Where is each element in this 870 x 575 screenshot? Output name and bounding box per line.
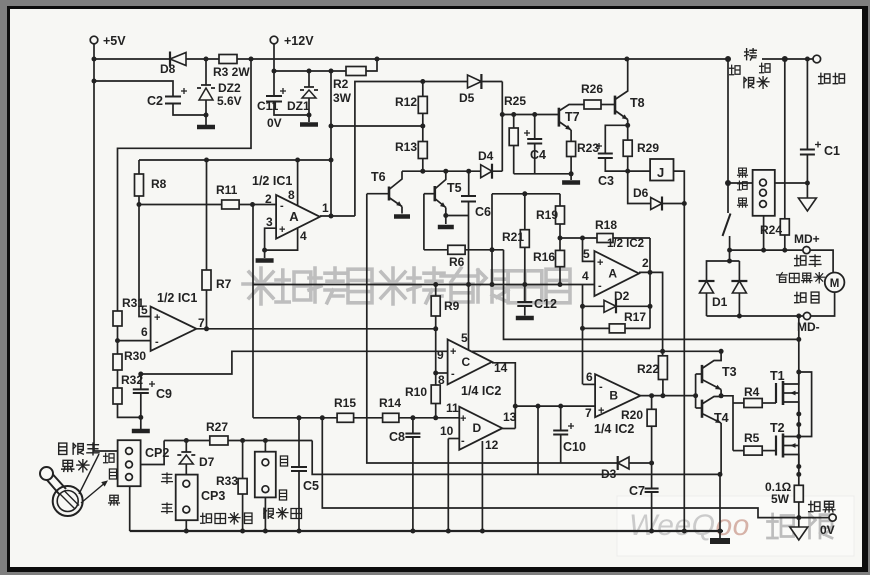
wire IC2A output xyxy=(639,272,663,355)
svg-text:6: 6 xyxy=(141,325,148,339)
svg-text:R6: R6 xyxy=(449,255,465,269)
label yellow upper xyxy=(162,473,173,483)
svg-text:-: - xyxy=(598,280,602,292)
wire R9 node down to pin8 xyxy=(435,329,437,385)
svg-text:+: + xyxy=(279,224,285,236)
wire connector bottom pin xyxy=(763,216,765,250)
svg-text:-: - xyxy=(461,435,465,447)
label black2 xyxy=(738,198,748,207)
resistor R27 xyxy=(210,436,228,445)
terminal +5V xyxy=(90,36,98,44)
capacitor C3 branch xyxy=(605,125,627,153)
node R7 bottom xyxy=(204,326,209,331)
capacitor C2 xyxy=(165,97,181,104)
svg-text:R33: R33 xyxy=(216,474,238,488)
wire ramp link down xyxy=(537,406,539,474)
node 0V line tap xyxy=(320,415,325,420)
resistor R29 xyxy=(627,125,629,140)
node 0V junction xyxy=(796,515,801,520)
svg-text:1/4 IC2: 1/4 IC2 xyxy=(461,384,501,398)
svg-text:A: A xyxy=(289,209,299,224)
node connector pin3 xyxy=(761,248,766,253)
node R9 junction xyxy=(433,326,438,331)
label blue lower xyxy=(279,490,286,500)
capacitor C11 xyxy=(273,71,275,96)
wire motor bottom xyxy=(811,292,835,316)
wire R31 bottom xyxy=(117,326,119,341)
resistor R19 xyxy=(559,194,561,206)
wire R17 line xyxy=(583,327,651,329)
wire R18 line xyxy=(560,237,650,239)
resistor R4 xyxy=(733,402,744,404)
node D6 right xyxy=(682,201,687,206)
svg-text:-: - xyxy=(451,368,455,380)
resistor R sense 0.1ohm xyxy=(794,485,803,502)
node C1 rail xyxy=(805,57,810,62)
label speed limiter xyxy=(264,508,273,518)
node source line xyxy=(796,472,801,477)
op-amp IC2 D xyxy=(459,407,502,450)
node pin6 xyxy=(115,338,120,343)
wire B output line xyxy=(640,395,695,397)
node D2 left xyxy=(580,304,585,309)
label brake cutoff xyxy=(201,513,212,523)
svg-text:C4: C4 xyxy=(530,148,546,162)
wire R32 to ground xyxy=(118,404,141,417)
wire MD+ line xyxy=(730,249,803,251)
wire emitter ground line xyxy=(514,173,571,175)
resistor R26 xyxy=(584,100,601,109)
node R20 top xyxy=(649,393,654,398)
wire T6 base long down xyxy=(367,194,652,463)
bottom-right watermark WeeQoo weiku xyxy=(617,496,854,556)
node R2 rail xyxy=(375,57,380,62)
svg-text:-: - xyxy=(155,336,159,348)
wire MD- down link xyxy=(798,316,800,372)
node D8 cathode rail xyxy=(204,57,209,62)
node R22 sawtooth line xyxy=(660,349,665,354)
wire R12 R13 feed line xyxy=(331,125,423,127)
mosfet T2 xyxy=(775,436,777,456)
svg-text:8: 8 xyxy=(438,373,445,387)
svg-text:4: 4 xyxy=(582,269,589,283)
svg-text:-: - xyxy=(280,200,284,212)
transistor T6 xyxy=(367,193,389,195)
wire B plus line xyxy=(515,405,595,407)
svg-text:2: 2 xyxy=(642,256,649,270)
zener DZ2 xyxy=(205,59,207,85)
svg-text:0V: 0V xyxy=(267,116,282,130)
connector speed limiter xyxy=(264,441,266,452)
wire R8 bottom xyxy=(138,196,140,205)
wire pin10 ground xyxy=(447,439,449,532)
svg-text:R5: R5 xyxy=(744,431,760,445)
svg-text:C12: C12 xyxy=(534,297,557,311)
resistor R24 xyxy=(784,59,786,219)
wire T5 base down xyxy=(423,194,425,250)
svg-text:+: + xyxy=(450,346,456,358)
capacitor C1 xyxy=(806,59,808,150)
wire IC1A output xyxy=(320,215,355,217)
op-amp IC2 B xyxy=(595,374,640,417)
wire feedback vertical xyxy=(649,238,651,328)
svg-text:4: 4 xyxy=(300,229,307,243)
diode D6 xyxy=(651,198,662,210)
wire pin8 IC1A xyxy=(297,160,299,206)
svg-text:1/4 IC2: 1/4 IC2 xyxy=(594,422,634,436)
svg-text:T4: T4 xyxy=(714,411,729,425)
resistor R25 xyxy=(513,115,515,129)
svg-text:R18: R18 xyxy=(595,218,617,232)
node R18 left pin5 feed xyxy=(580,236,585,241)
wire +12V stem xyxy=(273,44,275,71)
svg-text:CP3: CP3 xyxy=(201,489,225,503)
svg-text:3W: 3W xyxy=(333,91,352,105)
svg-text:R12: R12 xyxy=(395,95,417,109)
diode D1 right xyxy=(732,281,746,293)
diode D8 xyxy=(170,53,186,66)
svg-text:1: 1 xyxy=(322,201,329,215)
capacitor C3 xyxy=(598,154,613,159)
wire D2 horizontal xyxy=(583,305,651,307)
svg-text:T1: T1 xyxy=(770,369,785,383)
svg-text:1/2 IC1: 1/2 IC1 xyxy=(157,291,197,305)
svg-text:DZ1: DZ1 xyxy=(287,99,310,113)
wire C6 bottom link xyxy=(446,215,469,217)
node R3 right xyxy=(249,57,254,62)
switch blade xyxy=(723,214,731,237)
resistor R13 xyxy=(422,126,424,142)
hall throttle label xyxy=(59,443,67,454)
svg-text:D1: D1 xyxy=(712,295,728,309)
node ramp cap tap xyxy=(536,404,541,409)
svg-text:2: 2 xyxy=(265,192,272,206)
wire C2 bottom xyxy=(173,104,206,116)
wire to 0V terminal xyxy=(799,517,829,519)
svg-text:MD-: MD- xyxy=(797,320,820,334)
svg-text:-: - xyxy=(599,381,603,393)
svg-text:R3 2W: R3 2W xyxy=(213,65,250,79)
node output feedback xyxy=(648,270,653,275)
resistor R17 xyxy=(609,324,625,333)
connector battery three pin xyxy=(728,182,753,184)
node C5 tap xyxy=(297,415,302,420)
node B plus node xyxy=(513,404,518,409)
svg-text:D8: D8 xyxy=(160,62,176,76)
node R25 top xyxy=(511,112,516,117)
wire +5V rail xyxy=(94,58,728,60)
wire +12V distribution xyxy=(274,70,346,72)
node R19 R16 R18 xyxy=(558,236,563,241)
node T2 source xyxy=(796,464,801,469)
svg-text:C10: C10 xyxy=(563,440,586,454)
op-amp IC1 A xyxy=(276,195,320,239)
svg-text:R4: R4 xyxy=(744,385,760,399)
mosfet T1 xyxy=(775,383,777,403)
svg-text:T2: T2 xyxy=(770,421,785,435)
wire T6 T5 base feed line xyxy=(402,170,502,172)
svg-text:R23: R23 xyxy=(577,141,599,155)
svg-text:5: 5 xyxy=(583,247,590,261)
resistor R22 xyxy=(658,356,667,380)
svg-text:1/2 IC1: 1/2 IC1 xyxy=(252,174,292,188)
wire output to R12 top line xyxy=(355,82,502,217)
svg-text:C3: C3 xyxy=(598,174,614,188)
diode D1 left xyxy=(700,281,714,293)
svg-text:R13: R13 xyxy=(395,140,417,154)
resistor R32 xyxy=(117,370,119,388)
wire R19 top line xyxy=(492,193,560,195)
wire +12V branch vertical to IC1A output xyxy=(330,71,332,216)
svg-text:R30: R30 xyxy=(124,349,146,363)
wire pin5 reference xyxy=(139,205,151,317)
svg-text:B: B xyxy=(609,389,618,403)
svg-text:T5: T5 xyxy=(447,181,462,195)
node C5 bottom xyxy=(297,529,302,534)
resistor R31 xyxy=(113,311,122,326)
resistor R33 xyxy=(242,441,244,479)
node R21 bottom xyxy=(522,282,527,287)
svg-text:D3: D3 xyxy=(601,467,617,481)
wire 5.6V supply down-link xyxy=(118,59,252,311)
node R8 line tap xyxy=(329,158,334,163)
transistor T8 xyxy=(601,104,615,106)
svg-text:C: C xyxy=(461,355,470,369)
wire 0V sense line xyxy=(322,418,800,518)
resistor R6 xyxy=(448,245,465,254)
wire pin4 IC1A ground link xyxy=(265,228,298,250)
connector CP3 brake xyxy=(176,475,198,521)
node DZ1 bottom xyxy=(307,113,312,118)
wire R11 line xyxy=(139,204,222,206)
svg-text:D4: D4 xyxy=(478,149,494,163)
svg-text:+: + xyxy=(598,405,604,417)
node T3 T4 emitter junction xyxy=(719,393,724,398)
wire CP2 mid to R27 line xyxy=(141,441,165,465)
resistor R7 xyxy=(206,160,208,270)
wire motor minus line xyxy=(707,315,804,317)
resistor R5 xyxy=(733,450,744,452)
node R17 left xyxy=(580,326,585,331)
svg-text:R10: R10 xyxy=(405,385,427,399)
svg-text:1/2 IC2: 1/2 IC2 xyxy=(607,238,644,250)
capacitor C9 xyxy=(140,393,142,417)
ground C9 R32 xyxy=(140,417,142,429)
label blue upper xyxy=(280,456,287,466)
wire C output xyxy=(492,363,515,429)
label yellow lower xyxy=(162,503,173,513)
svg-text:R17: R17 xyxy=(624,310,646,324)
wire R6 line xyxy=(424,249,504,251)
wire R2 to rail xyxy=(366,59,377,71)
svg-text:MD+: MD+ xyxy=(794,232,820,246)
node R12 top xyxy=(420,79,425,84)
svg-text:R14: R14 xyxy=(379,396,401,410)
node R33 top xyxy=(240,438,245,443)
svg-text:11: 11 xyxy=(446,401,459,415)
svg-text:10: 10 xyxy=(440,424,454,438)
wire CP3 bottom xyxy=(185,520,187,531)
node R7 tap xyxy=(204,158,209,163)
resistor R10 xyxy=(431,385,440,404)
svg-text:9: 9 xyxy=(437,348,444,362)
label thick red xyxy=(819,73,830,83)
node T1 source xyxy=(796,412,801,417)
label red xyxy=(738,181,748,190)
ground 0V triangle xyxy=(798,518,800,527)
node T7 emitter gnd xyxy=(569,171,574,176)
node T1 drain xyxy=(796,370,801,375)
connector CP2 xyxy=(118,440,141,486)
svg-text:C1: C1 xyxy=(824,144,840,158)
svg-text:+: + xyxy=(460,413,466,425)
node D1 right bottom xyxy=(737,314,742,319)
resistor R16 xyxy=(559,238,561,250)
wire FET drain bus xyxy=(798,372,800,474)
node pin2 junction xyxy=(250,202,255,207)
node R9 top midline xyxy=(433,282,438,287)
svg-text:D5: D5 xyxy=(459,91,475,105)
wire pin6 line xyxy=(118,340,151,342)
svg-text:C7: C7 xyxy=(629,484,645,498)
node C6 midline xyxy=(466,282,471,287)
svg-text:0V: 0V xyxy=(820,523,835,537)
motor M xyxy=(825,273,845,293)
resistor R2 xyxy=(346,67,366,76)
node R20 D3 C7 xyxy=(649,461,654,466)
wire sense resistor xyxy=(798,474,800,485)
svg-text:R8: R8 xyxy=(151,177,167,191)
svg-text:D2: D2 xyxy=(614,289,630,303)
node pin3 pin4 gnd xyxy=(262,248,267,253)
svg-text:5W: 5W xyxy=(771,492,790,506)
svg-text:8: 8 xyxy=(288,188,295,202)
svg-text:C2: C2 xyxy=(147,94,163,108)
resistor R11 xyxy=(222,200,239,209)
svg-text:C8: C8 xyxy=(389,430,405,444)
resistor R23 xyxy=(567,141,576,156)
capacitor C7 xyxy=(651,463,653,489)
svg-text:R24: R24 xyxy=(760,223,782,237)
ground T7 xyxy=(570,174,572,180)
capacitor C6 xyxy=(468,171,470,196)
label black wire xyxy=(109,495,120,505)
wire R15 R14 line xyxy=(253,417,459,419)
svg-text:+12V: +12V xyxy=(284,34,314,48)
diode D2 xyxy=(604,300,616,312)
svg-text:R29: R29 xyxy=(637,141,659,155)
svg-text:R15: R15 xyxy=(334,396,356,410)
wire switch bottom xyxy=(729,236,731,250)
node C8 tap xyxy=(410,415,415,420)
svg-text:R25: R25 xyxy=(504,94,526,108)
diode pair D1 box xyxy=(707,261,740,316)
node D7 top xyxy=(184,438,189,443)
wire D6 branch xyxy=(628,171,685,203)
node R12 line tap xyxy=(329,124,334,129)
label black xyxy=(738,168,748,177)
node R22 bottom xyxy=(660,393,665,398)
svg-text:A: A xyxy=(608,267,617,281)
node bottom rail main xyxy=(718,529,723,534)
node MD- long line xyxy=(796,337,801,342)
resistor R21 xyxy=(524,194,526,230)
node R24 bottom xyxy=(782,248,787,253)
diode D5 xyxy=(468,75,482,88)
svg-text:D: D xyxy=(472,421,481,435)
center watermark text (company name, light gray) xyxy=(243,268,279,304)
capacitor C5 xyxy=(298,418,300,467)
wire IC1B output xyxy=(196,328,435,330)
svg-text:+: + xyxy=(597,257,603,269)
wire throttle line to FET source xyxy=(312,441,720,475)
node connector link xyxy=(725,180,731,186)
zener DZ1 xyxy=(308,71,310,87)
svg-text:7: 7 xyxy=(585,406,592,420)
wire motor minus long line xyxy=(504,250,799,340)
transistor T7 xyxy=(558,108,561,127)
node D1 top xyxy=(727,259,732,264)
terminal battery plus xyxy=(813,55,821,63)
svg-text:WeeQoo: WeeQoo xyxy=(629,509,750,542)
svg-text:R11: R11 xyxy=(216,183,238,197)
node C9 ground xyxy=(138,415,143,420)
wire D2 line xyxy=(582,285,584,385)
node R6 crossing xyxy=(490,247,495,252)
wire pin5 IC2A xyxy=(583,238,595,261)
wire C6 to midline and pin5 xyxy=(468,202,470,351)
op-amp IC1 B triangle xyxy=(151,307,197,351)
resistor R9 xyxy=(435,285,437,297)
ground main xyxy=(719,531,721,538)
hall throttle symbol xyxy=(53,486,83,516)
node switch bottom xyxy=(727,248,732,253)
svg-text:C9: C9 xyxy=(156,387,172,401)
svg-text:7: 7 xyxy=(198,316,205,330)
node T8 rail xyxy=(624,57,629,62)
wire pin3 IC1A xyxy=(265,228,277,250)
label brushed motor xyxy=(777,273,787,283)
diode D3 xyxy=(618,457,629,469)
node R29 bottom xyxy=(625,169,630,174)
wire midline to IC2A inverting xyxy=(253,284,594,286)
node C6 top xyxy=(466,169,471,174)
svg-text:R19: R19 xyxy=(536,208,558,222)
wire D5 D4 junction vertical xyxy=(501,82,503,172)
svg-text:R26: R26 xyxy=(581,82,603,96)
node R25 line top xyxy=(500,112,505,117)
svg-text:R16: R16 xyxy=(533,250,555,264)
resistor R20 xyxy=(651,396,653,410)
node output +12V link xyxy=(329,214,334,219)
svg-text:5.6V: 5.6V xyxy=(217,94,242,108)
wire left supply vertical to hall throttle xyxy=(94,59,118,451)
wire pin13 output xyxy=(502,428,515,430)
label cyan wire xyxy=(109,469,116,479)
label thick black xyxy=(809,501,820,511)
resistor R3 xyxy=(219,55,237,64)
terminal 0V xyxy=(829,514,836,521)
wire pin8 stub xyxy=(436,372,448,374)
wire T1 T2 outer bracket xyxy=(799,372,812,437)
node C9 top xyxy=(138,372,143,377)
svg-text:T6: T6 xyxy=(371,170,386,184)
label connect-key xyxy=(745,49,757,60)
diode D7 zener xyxy=(185,441,187,453)
svg-text:M: M xyxy=(830,278,840,290)
wire +5V stem xyxy=(93,44,95,59)
node midline R19 link xyxy=(490,282,495,287)
